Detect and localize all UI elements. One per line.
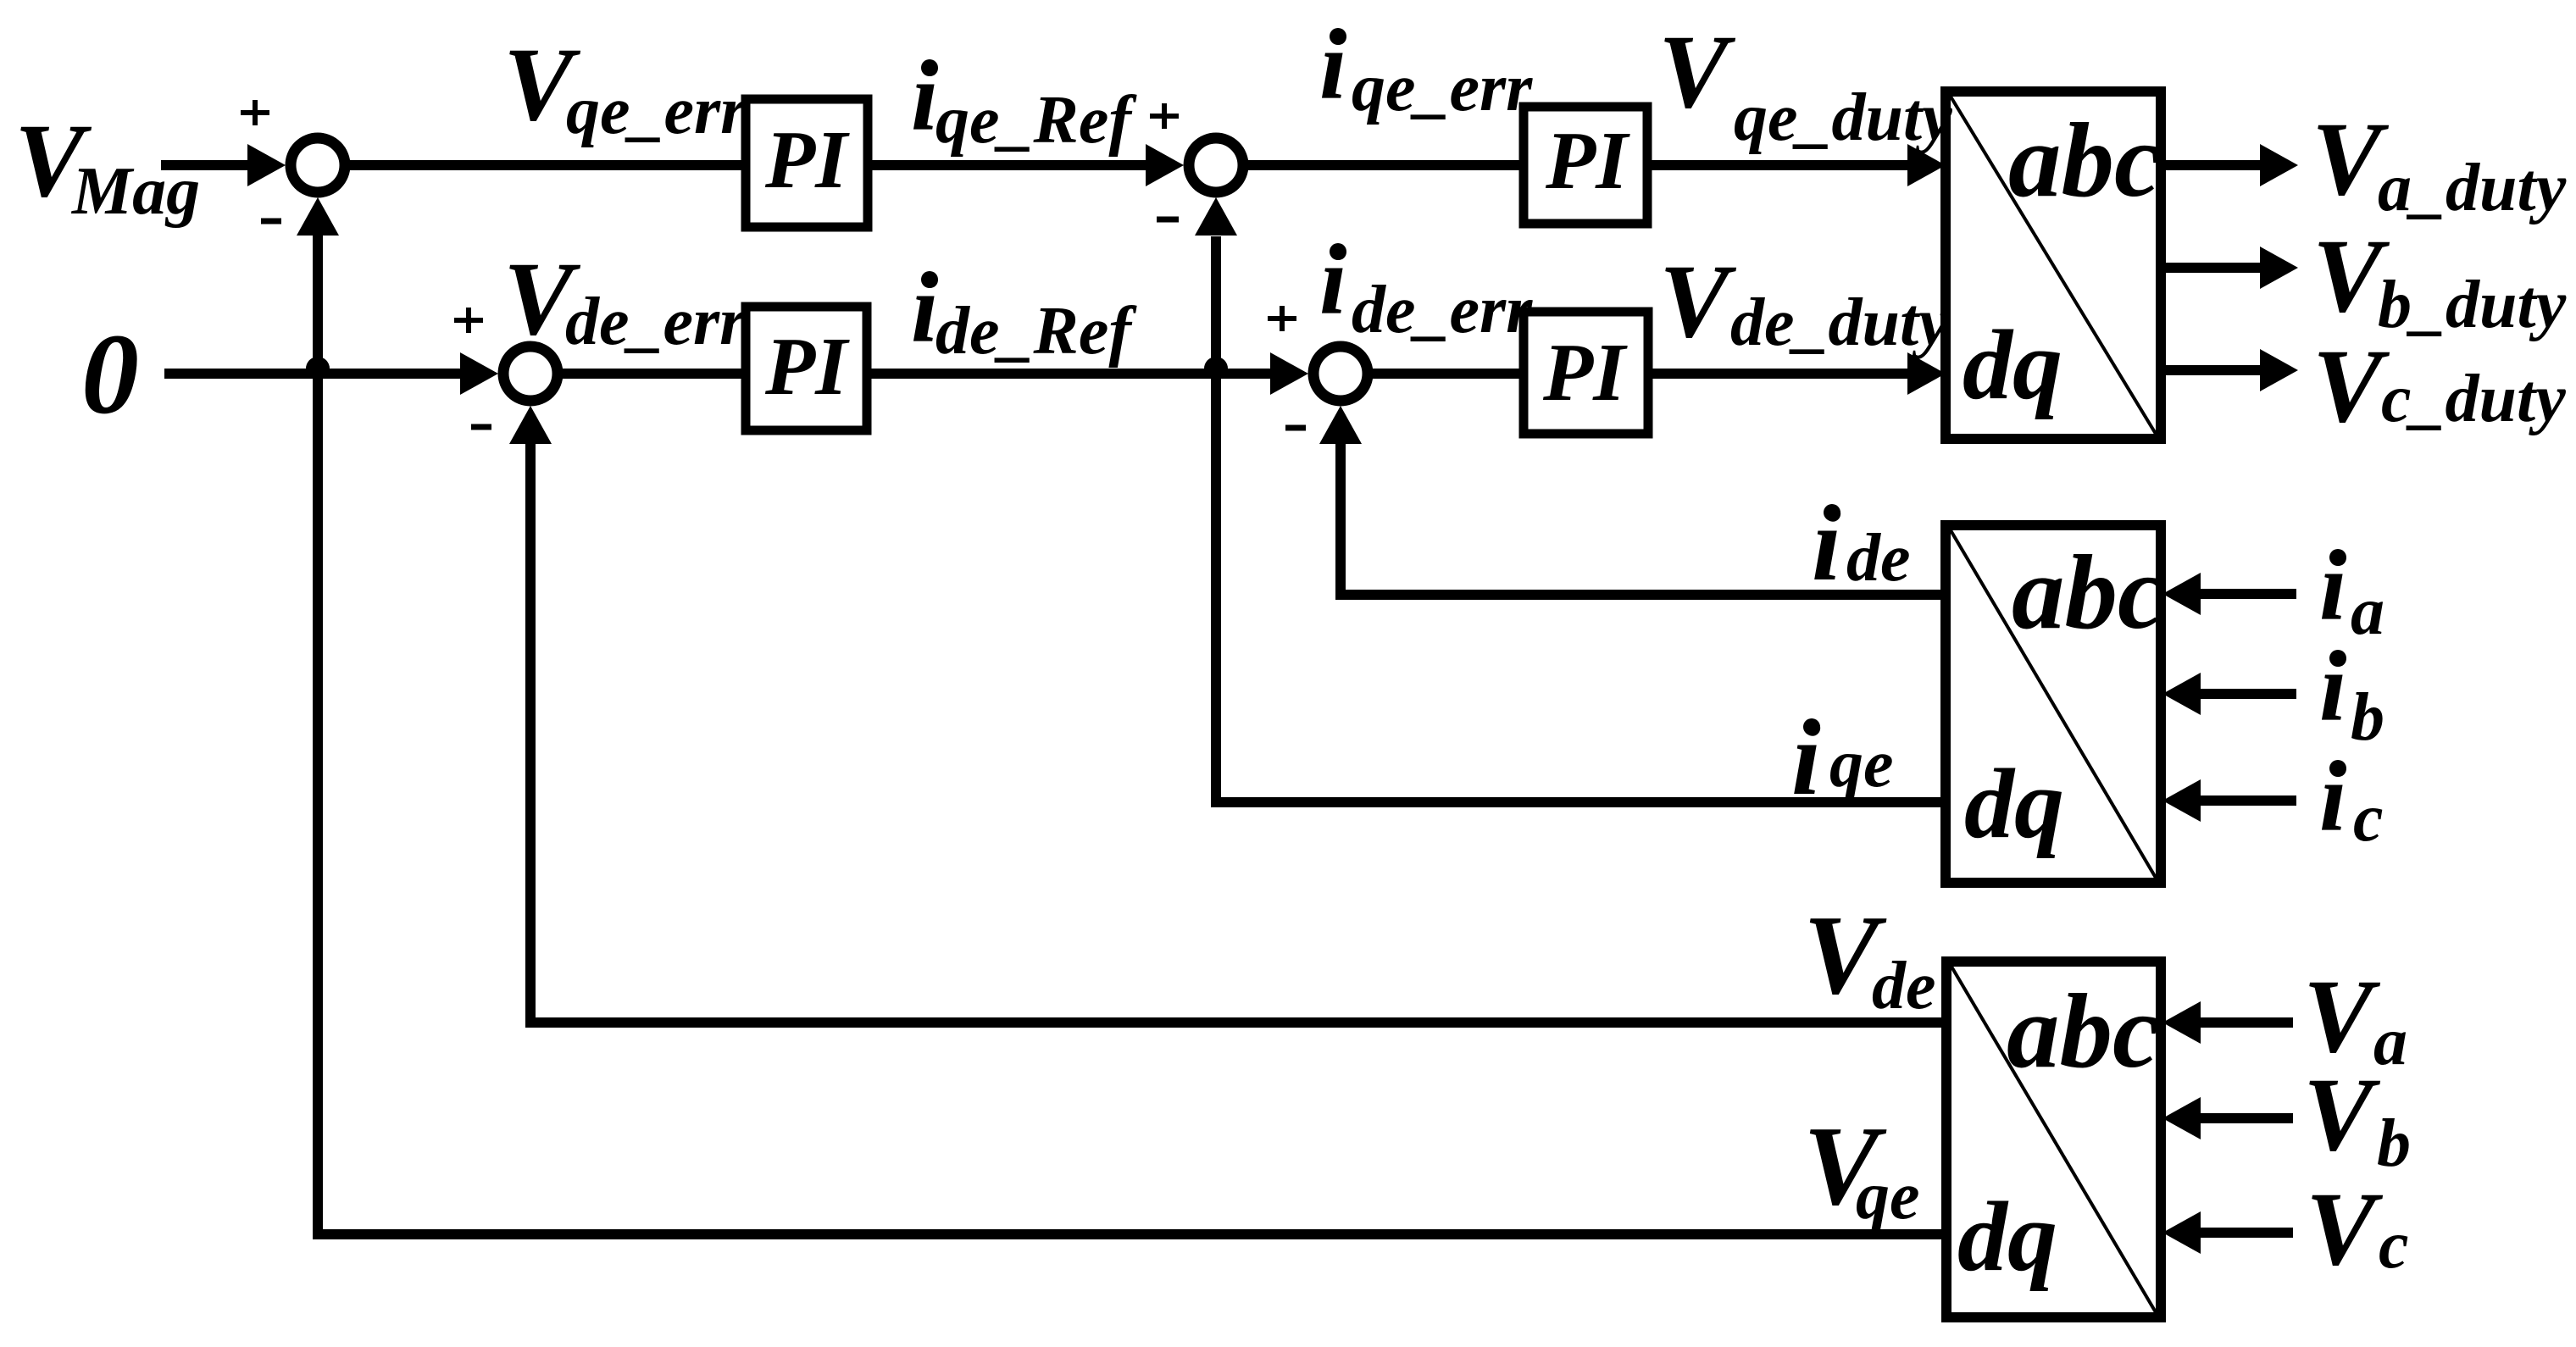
svg-text:abc: abc <box>2007 973 2159 1090</box>
svg-text:i: i <box>1319 12 1346 120</box>
svg-text:qe: qe <box>1856 1159 1920 1233</box>
svg-text:i: i <box>911 43 938 152</box>
svg-text:a_duty: a_duty <box>2378 151 2567 225</box>
svg-text:PI: PI <box>764 114 850 205</box>
svg-text:V: V <box>2306 1171 2384 1287</box>
svg-text:dq: dq <box>1964 748 2064 859</box>
svg-text:b_duty: b_duty <box>2378 268 2567 342</box>
svg-text:qe: qe <box>1829 727 1894 801</box>
svg-text:PI: PI <box>1542 327 1628 418</box>
svg-text:V: V <box>2312 328 2390 444</box>
svg-text:Mag: Mag <box>70 154 200 229</box>
svg-text:PI: PI <box>764 321 850 412</box>
svg-text:qe_err: qe_err <box>566 74 747 148</box>
svg-text:b: b <box>2377 1106 2411 1181</box>
svg-text:0: 0 <box>81 311 139 438</box>
svg-text:V: V <box>1658 14 1736 130</box>
svg-text:PI: PI <box>1545 115 1630 206</box>
svg-text:i: i <box>1791 701 1821 818</box>
svg-text:V: V <box>2303 1056 2381 1172</box>
svg-text:i: i <box>2319 533 2346 641</box>
svg-text:de: de <box>1872 949 1936 1023</box>
svg-text:c: c <box>2353 781 2384 856</box>
svg-text:dq: dq <box>1963 309 2062 420</box>
svg-text:c_duty: c_duty <box>2381 362 2566 436</box>
svg-text:abc: abc <box>2012 535 2164 651</box>
svg-text:c: c <box>2379 1208 2409 1283</box>
svg-text:de_err: de_err <box>565 285 747 359</box>
svg-text:b: b <box>2351 680 2384 755</box>
svg-text:i: i <box>2319 744 2346 852</box>
svg-text:qe_duty: qe_duty <box>1734 80 1952 155</box>
svg-text:dq: dq <box>1957 1181 2057 1292</box>
svg-text:V: V <box>1659 243 1737 359</box>
svg-text:de_duty: de_duty <box>1730 285 1949 360</box>
svg-text:i: i <box>1812 486 1841 603</box>
svg-text:i: i <box>1319 227 1346 335</box>
svg-text:i: i <box>2319 634 2346 742</box>
svg-text:qe_err: qe_err <box>1352 51 1533 125</box>
svg-text:abc: abc <box>2008 103 2161 219</box>
svg-text:a: a <box>2373 1005 2407 1079</box>
svg-text:a: a <box>2351 574 2384 649</box>
svg-text:de_Ref: de_Ref <box>935 294 1137 369</box>
svg-text:qe_Ref: qe_Ref <box>935 83 1137 158</box>
svg-text:i: i <box>911 255 938 363</box>
svg-text:de_err: de_err <box>1352 273 1533 347</box>
svg-text:de: de <box>1846 521 1911 596</box>
